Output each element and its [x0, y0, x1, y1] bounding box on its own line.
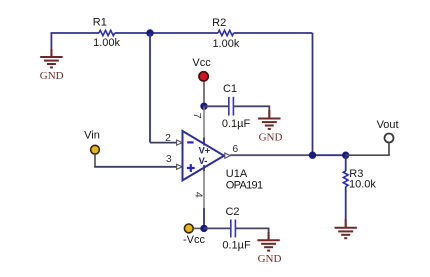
svg-text:Vin: Vin [84, 129, 100, 141]
svg-text:GND: GND [40, 70, 64, 82]
svg-text:6: 6 [232, 143, 238, 155]
terminal Vin [91, 145, 100, 154]
op-amp plus symbol [187, 164, 195, 172]
wire output pin 6 to node D [230, 154, 312, 156]
svg-text:-Vcc: -Vcc [183, 234, 206, 246]
wire node B to C1 [204, 105, 228, 107]
wire R1 to R2 [115, 32, 218, 34]
wire -Vcc stub [194, 227, 205, 229]
svg-text:0.1µF: 0.1µF [222, 118, 251, 130]
terminal Vcc [199, 72, 208, 81]
svg-text:V+: V+ [199, 145, 211, 155]
terminal Vout [385, 134, 394, 143]
wire Vin stub (vertical) [94, 154, 96, 167]
svg-text:2: 2 [165, 132, 171, 144]
node junction D (feedback/output) [309, 152, 316, 159]
svg-text:V-: V- [199, 156, 208, 166]
resistor R3 (vertical) [343, 171, 348, 187]
op-amp U1 triangle [183, 131, 225, 180]
svg-text:U1A: U1A [226, 168, 248, 180]
node junction C (pin4/-Vcc/C2) [200, 225, 207, 232]
op-amp minus symbol [187, 141, 193, 143]
wire R3 to GND4 [345, 187, 347, 227]
svg-text:GND: GND [259, 131, 283, 143]
wire pin 4 out of op-amp [203, 165, 205, 171]
wire node E to R3 [345, 155, 347, 171]
wire C2 to GND3 [236, 228, 269, 239]
svg-text:7: 7 [191, 113, 203, 119]
capacitor C1 [229, 97, 234, 116]
wire node D to node E [313, 154, 346, 156]
wire pin 7 into op-amp [203, 138, 205, 146]
wire top rail left: GND to R1 [51, 33, 99, 57]
svg-text:3: 3 [166, 153, 172, 165]
ground GND1 top-left [40, 49, 62, 67]
svg-text:Vcc: Vcc [192, 57, 211, 69]
wire Vcc stub to node B [203, 82, 205, 107]
pin 2 arrow [177, 140, 183, 145]
svg-text:4: 4 [192, 192, 204, 198]
terminal -Vcc [184, 224, 193, 233]
wire Vin to pin 3 [94, 166, 176, 168]
wire to pin 2 (horizontal) [150, 142, 177, 144]
svg-text:0.1µF: 0.1µF [222, 239, 251, 251]
node junction B (Vcc/C1/pin7) [200, 103, 207, 110]
svg-text:Vout: Vout [377, 119, 399, 131]
svg-text:R2: R2 [212, 17, 226, 29]
ground GND4 (R3) [335, 219, 357, 238]
wire node C to C2 [204, 227, 230, 229]
pin 7 lead (gray) [203, 106, 205, 137]
svg-text:C1: C1 [223, 83, 237, 95]
wire node A down to pin 2 [149, 33, 151, 143]
node junction E (R3/Vout) [342, 152, 349, 159]
svg-text:10.0k: 10.0k [349, 179, 376, 191]
ground GND2 (C1) [258, 110, 280, 129]
svg-text:R1: R1 [93, 16, 107, 28]
wire feedback vertical [312, 33, 314, 155]
wire Vout stub [346, 143, 389, 156]
pin 4 lead (gray) [203, 171, 205, 208]
resistor R2 [218, 30, 234, 35]
svg-text:C2: C2 [225, 206, 239, 218]
pin 3 arrow [177, 164, 183, 169]
wire R2 to feedback corner [234, 32, 313, 34]
capacitor C2 [231, 220, 236, 238]
wire C1 to GND2 [234, 106, 269, 117]
pin 6 arrow at op-amp output [225, 153, 230, 158]
node junction A (R1/R2/pin2) [146, 29, 153, 36]
svg-text:1.00k: 1.00k [93, 37, 120, 49]
svg-text:GND: GND [258, 253, 282, 265]
ground GND3 (C2) [257, 232, 279, 251]
resistor R1 [99, 30, 115, 35]
svg-text:OPA191: OPA191 [226, 179, 263, 191]
wire pin 4 to node C [203, 208, 205, 228]
svg-text:1.00k: 1.00k [212, 38, 239, 50]
